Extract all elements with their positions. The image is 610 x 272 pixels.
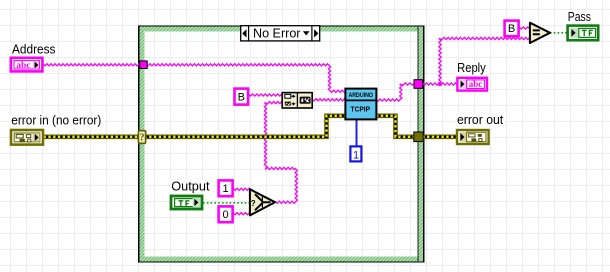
string control Address xyxy=(11,58,43,72)
tunnel address (pink) xyxy=(140,61,147,69)
case selector terminal ? xyxy=(138,131,145,144)
svg-text:error out: error out xyxy=(457,112,504,127)
label Address xyxy=(11,41,59,56)
error out cluster indicator xyxy=(457,130,489,144)
wire tunnel to Reply indicator xyxy=(423,83,458,85)
boolean control Output TF xyxy=(171,196,202,209)
wire numeric 1 to TCPIP xyxy=(356,119,358,147)
node equal? xyxy=(530,23,550,43)
svg-text:B: B xyxy=(508,23,515,35)
wire 1 constant to select xyxy=(233,188,252,190)
label error out xyxy=(456,112,506,127)
label error in (no error) xyxy=(10,112,104,127)
svg-text:Address: Address xyxy=(12,41,56,56)
svg-text:Pass: Pass xyxy=(568,9,592,24)
wire error in to TCPIP xyxy=(44,116,347,137)
case selector label "No Error" xyxy=(241,26,320,41)
label Pass xyxy=(566,9,593,24)
wire tunnel to TCPIP address input xyxy=(146,64,347,93)
node ARDUINO TCPIP xyxy=(345,89,376,120)
svg-text:TCPIP: TCPIP xyxy=(351,107,371,114)
wire equals to Pass TF xyxy=(550,32,568,34)
string constant 1 xyxy=(219,180,233,196)
svg-text:abc: abc xyxy=(469,79,483,89)
numeric constant 1 xyxy=(350,146,361,161)
svg-text:Output: Output xyxy=(171,179,210,194)
string indicator Reply xyxy=(457,78,487,91)
tunnel error out (olive) xyxy=(414,132,423,142)
svg-text:?: ? xyxy=(251,199,256,208)
wire Output TF to select xyxy=(203,202,251,204)
wire junction to equals node xyxy=(439,37,530,84)
svg-text:0: 0 xyxy=(223,209,229,221)
string constant B (right) xyxy=(505,21,519,37)
svg-text:No Error: No Error xyxy=(253,27,301,41)
string constant B (left) xyxy=(235,89,249,105)
junction dot reply wire xyxy=(438,82,442,86)
node select xyxy=(250,189,275,215)
boolean indicator Pass TF xyxy=(568,26,599,41)
svg-text:1: 1 xyxy=(353,149,359,161)
case structure border xyxy=(138,26,424,263)
wire B constant to concat input xyxy=(249,94,285,96)
svg-text:ARDUINO: ARDUINO xyxy=(348,93,373,99)
node build command string xyxy=(282,92,312,109)
wire B constant to equals node xyxy=(519,27,530,29)
svg-text:?: ? xyxy=(140,133,145,144)
svg-text:abc: abc xyxy=(16,61,30,71)
wire TCPIP to error out xyxy=(376,116,457,137)
label Reply xyxy=(456,60,489,75)
wire TCPIP reply to tunnel xyxy=(376,83,415,101)
wire select output to concat input xyxy=(264,102,297,204)
error in cluster control xyxy=(11,130,43,145)
svg-text:1: 1 xyxy=(223,183,229,195)
svg-text:Reply: Reply xyxy=(457,60,486,75)
svg-text:B: B xyxy=(238,92,245,104)
tunnel reply (pink) xyxy=(414,80,423,89)
label Output xyxy=(170,179,212,194)
wire concat output to TCPIP command input xyxy=(312,99,347,101)
string constant 0 xyxy=(219,206,233,222)
wire 0 constant to select xyxy=(233,213,252,215)
wire Address to tunnel xyxy=(43,64,141,66)
svg-text:error in (no error): error in (no error) xyxy=(11,112,101,127)
